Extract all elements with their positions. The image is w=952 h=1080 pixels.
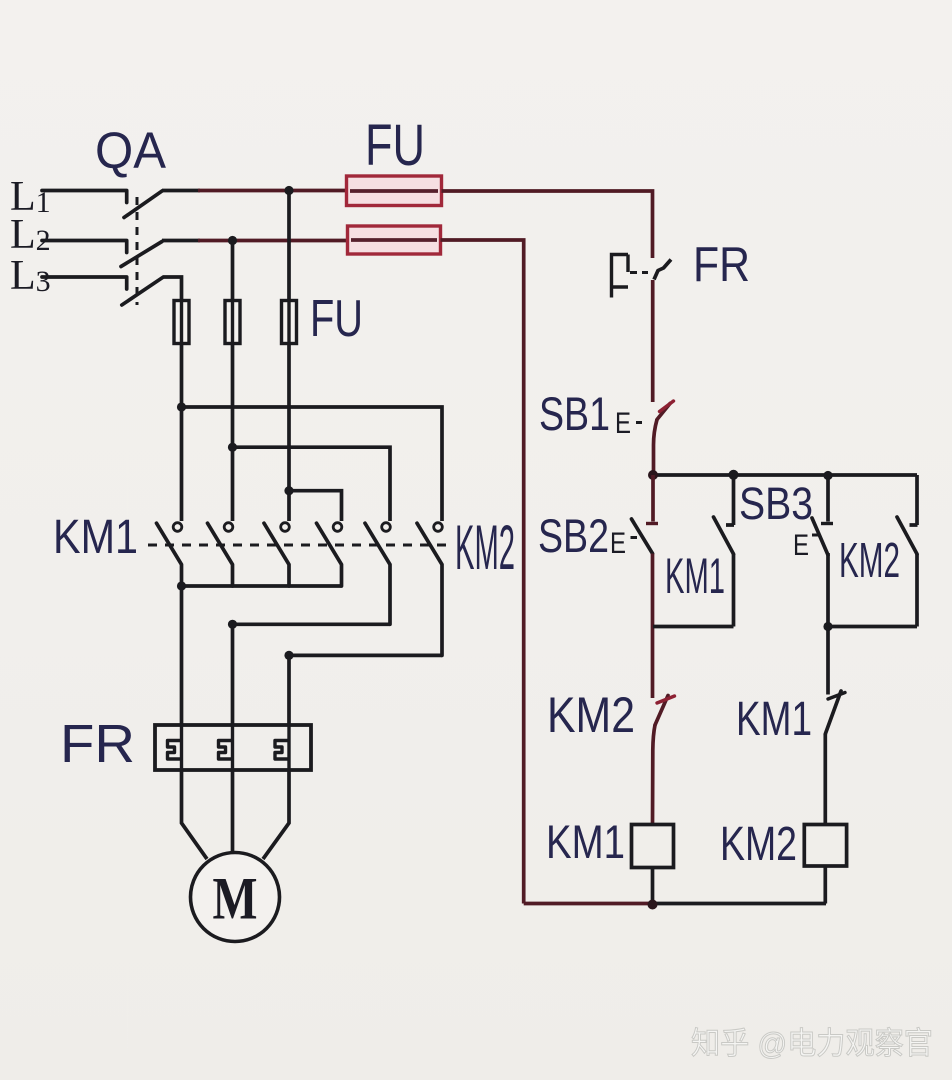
fuse FU main 3: [282, 301, 297, 344]
contact KM1 NC interlock: [825, 627, 845, 735]
contactor KM1 main pole 3: [264, 523, 289, 586]
motor M: [191, 853, 280, 942]
wire output join A (KM1p1-KM2p1): [182, 584, 342, 588]
relay FR NC contact (control): [612, 255, 672, 298]
wire SB1 to rail: [654, 420, 658, 476]
linkage dashed KM1-KM2: [148, 544, 451, 547]
wire phase A vertical (to KM1 pole1): [180, 344, 184, 522]
contact KM2 auxiliary NO (seal-in): [897, 475, 918, 627]
node junction rail-SB3: [823, 471, 832, 480]
relay FR heater element 3: [275, 741, 289, 760]
svg-text:KM1: KM1: [665, 548, 725, 604]
svg-text:E: E: [793, 529, 809, 562]
fuse FU1 control (top): [347, 176, 442, 206]
svg-text:E: E: [610, 527, 626, 560]
svg-text:KM2: KM2: [547, 687, 635, 743]
svg-text:KM1: KM1: [736, 693, 812, 746]
switch QA pole 2 blade: [121, 242, 162, 267]
svg-text:FU: FU: [365, 113, 425, 178]
FR actuator bracket: [612, 255, 629, 298]
wire KM2 NC to coil KM1: [653, 725, 656, 825]
relay FR heater element 1: [168, 741, 182, 760]
node junction L2/control tap: [228, 236, 237, 245]
svg-text:SB1: SB1: [539, 387, 610, 440]
contactor KM2 main pole 3: [417, 523, 442, 656]
wire phase C vertical (to KM1 pole3): [287, 344, 291, 522]
contactor KM2 main pole 1: [317, 523, 342, 586]
node junction crossover B: [228, 443, 237, 452]
contactor KM2 main pole 2: [365, 523, 390, 625]
node junction out B: [228, 620, 237, 629]
contactor KM1 main pole 1: [157, 523, 182, 586]
SB2 anvil tick: [646, 522, 658, 525]
svg-text:KM2: KM2: [839, 534, 900, 588]
wire FR to motor left: [182, 770, 208, 859]
contact KM1 auxiliary NO (seal-in): [714, 475, 735, 627]
SB2 upper wire: [651, 475, 655, 522]
node junction out A: [177, 581, 186, 590]
wire control bottom rail: [524, 902, 653, 906]
svg-text:FU: FU: [310, 290, 363, 348]
coil KM2: [804, 825, 846, 867]
wire FR to motor mid: [231, 770, 235, 852]
wire FR to motor right: [263, 770, 289, 859]
node junction crossover A: [177, 402, 186, 411]
wire FR contact to SB1: [651, 280, 655, 402]
SB1 blade tick: [660, 401, 674, 412]
svg-text:FR: FR: [693, 238, 750, 292]
FR blade: [654, 260, 671, 280]
wire control top rail: [653, 473, 917, 477]
switch QA pole 3 blade: [122, 278, 163, 306]
wire fuse FU2 to left spine: [441, 240, 524, 904]
svg-text:KM2: KM2: [455, 513, 515, 583]
wire L2 incoming: [42, 241, 127, 253]
svg-text:FR: FR: [60, 714, 135, 774]
coil KM1: [632, 825, 674, 868]
wire phase B vertical (to KM1 pole2): [231, 344, 235, 522]
wire KM1 NC to coil KM2: [823, 734, 827, 825]
wire output join C (KM1p3-KM2p3): [289, 654, 442, 658]
svg-text:SB3: SB3: [739, 478, 813, 529]
wire L3 down: [163, 277, 182, 301]
SB2 blade: [632, 519, 653, 554]
fuse FU main 2: [225, 301, 240, 344]
node junction SB3/KM2aux: [823, 622, 832, 631]
fuse FU main x3 (power circuit): [174, 191, 297, 344]
svg-text:SB2: SB2: [538, 509, 609, 562]
fuse FU2 control (bottom): [348, 226, 441, 254]
relay FR heater box: [155, 725, 311, 770]
svg-text:E: E: [615, 407, 631, 440]
contact KM2 NC interlock: [655, 696, 675, 726]
wire crossover C to KM2 pole1: [289, 491, 342, 521]
node junction bottom rail: [648, 900, 658, 910]
node junction out C: [284, 651, 293, 660]
node junction rail-KM1aux: [729, 470, 739, 480]
wire phase down to fuses: [233, 191, 290, 301]
svg-text:KM1: KM1: [53, 511, 138, 564]
svg-text:QA: QA: [95, 122, 166, 179]
wire outputs down to FR: [182, 586, 290, 725]
svg-text:KM2: KM2: [720, 818, 797, 871]
wire crossover B to KM2 pole2: [233, 447, 391, 521]
switch QA pole 1 blade: [124, 191, 162, 218]
wire output join B (KM1p2-KM2p2): [233, 622, 391, 626]
node junction rail-SB2: [648, 470, 658, 480]
wire KM1 aux bottom join: [653, 625, 734, 629]
node junction crossover C: [284, 486, 293, 495]
wire KM2 aux bottom join: [828, 625, 917, 629]
fuse FU main 1: [174, 301, 189, 344]
node junction L1/control tap: [284, 186, 293, 195]
wire SB3 down: [826, 553, 830, 627]
wire SB2 down to KM2 NC: [651, 554, 655, 699]
wire heaters through box: [182, 725, 290, 770]
relay FR heater element 2: [219, 741, 233, 760]
switch QA linkage dashed: [136, 197, 139, 305]
pushbutton SB3 (reverse start, NO): [793, 476, 833, 563]
wire L2 to fuse FU2: [162, 239, 200, 243]
wire coil KM1 to bottom rail: [651, 868, 655, 904]
wire coil KM2 to bottom rail: [823, 866, 827, 904]
svg-text:M: M: [213, 866, 258, 932]
contactor KM1 main pole 2: [208, 523, 233, 586]
SB1 blade: [657, 404, 670, 420]
pushbutton SB1 (stop, NC): [615, 401, 674, 440]
svg-text:KM1: KM1: [546, 815, 625, 868]
wire L1 to fuse FU1: [162, 189, 200, 193]
wire fuse FU1 to FR contact: [442, 191, 653, 258]
pushbutton SB2 (forward start, NO): [610, 475, 658, 560]
svg-text:知乎 @电力观察官: 知乎 @电力观察官: [691, 1026, 933, 1061]
wire L3 incoming: [42, 277, 127, 289]
wire crossover A to KM2 pole3: [182, 407, 443, 521]
wire L1 incoming: [42, 191, 127, 203]
